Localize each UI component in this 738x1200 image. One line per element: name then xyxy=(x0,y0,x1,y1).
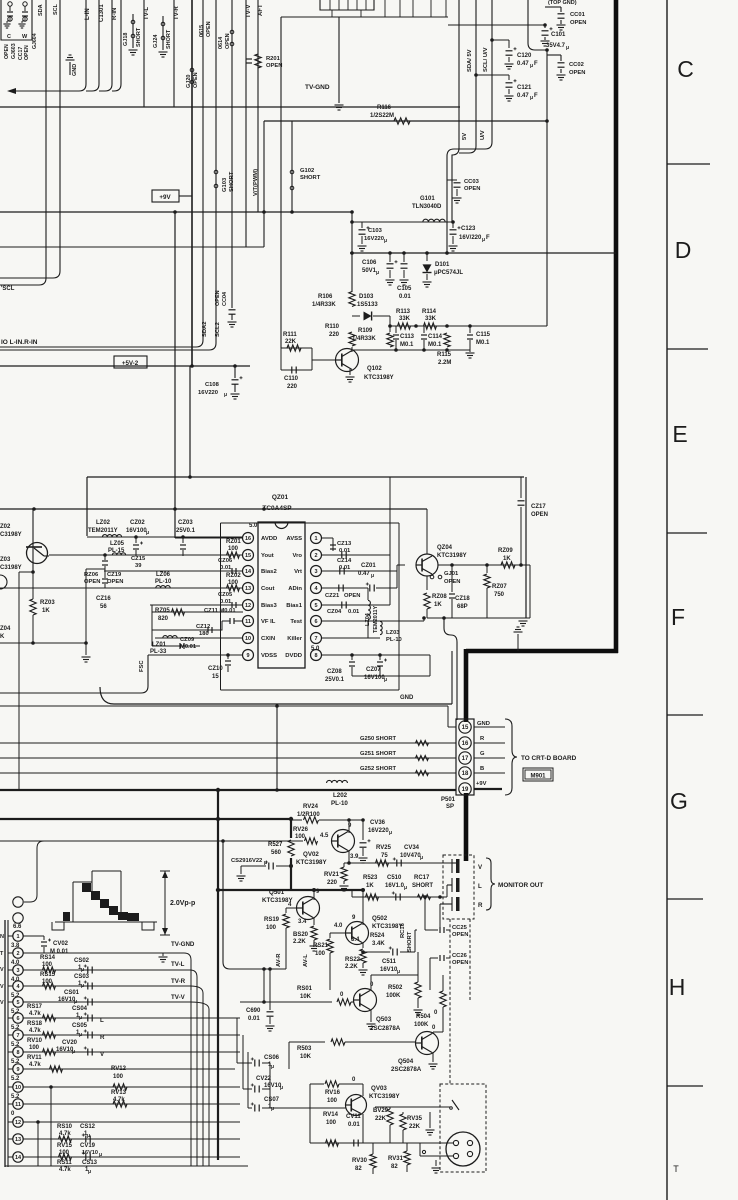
jumper GJ20 OPEN xyxy=(190,68,194,72)
svg-text:16V220: 16V220 xyxy=(198,390,218,396)
capacitor C123 16V/220uF xyxy=(451,220,455,224)
svg-text:μ: μ xyxy=(530,63,533,69)
svg-text:4.7k: 4.7k xyxy=(29,1011,41,1017)
svg-text:M901: M901 xyxy=(530,774,546,780)
svg-text:QZ04: QZ04 xyxy=(437,545,453,551)
wire monitor V y863 xyxy=(349,862,452,864)
bottom connector body xyxy=(4,920,6,1167)
transistor Q503 2SC2878A xyxy=(354,989,377,1012)
svg-text:1K: 1K xyxy=(434,602,442,608)
svg-text:22K: 22K xyxy=(285,339,297,345)
capacitor CV22 16V10u xyxy=(243,1088,252,1090)
svg-text:KTC3198Y: KTC3198Y xyxy=(296,859,327,866)
long wire +5V-2 y366 xyxy=(0,365,250,367)
svg-text:GJ20: GJ20 xyxy=(186,75,192,88)
svg-text:TV-L: TV-L xyxy=(144,7,150,20)
svg-text:RS01: RS01 xyxy=(297,986,313,992)
resistor RV29 22K xyxy=(387,1109,393,1125)
wire y841 left xyxy=(0,840,291,842)
svg-text:16: 16 xyxy=(245,536,251,542)
svg-text:SDA2: SDA2 xyxy=(202,322,208,337)
svg-text:RV25: RV25 xyxy=(376,845,392,851)
svg-text:220: 220 xyxy=(287,384,298,390)
wire monitor R xyxy=(440,903,452,905)
jumper GJ603 capacitor xyxy=(8,2,12,6)
svg-text:0.01: 0.01 xyxy=(339,548,351,554)
resistor R527 560 xyxy=(288,840,294,856)
pin3 wire TV-L xyxy=(23,969,190,971)
svg-text:μ: μ xyxy=(530,95,533,101)
jack L xyxy=(451,878,453,892)
svg-text:220: 220 xyxy=(327,880,338,886)
pin wires right stubs xyxy=(474,726,505,728)
vertical x545 xyxy=(546,253,548,326)
svg-text:18: 18 xyxy=(462,771,469,777)
svg-text:10: 10 xyxy=(15,1085,21,1091)
DIN connector circle xyxy=(446,1132,480,1166)
svg-text:L: L xyxy=(100,1017,104,1024)
staircase left block xyxy=(63,912,70,921)
vertical x264 from y969 xyxy=(263,969,265,1002)
svg-text:TO CRT-D BOARD: TO CRT-D BOARD xyxy=(521,755,577,762)
capacitor C110 220 xyxy=(291,367,293,374)
svg-text:M0.1: M0.1 xyxy=(428,342,442,348)
svg-text:AVDD: AVDD xyxy=(261,536,277,542)
resistor RZ02 100 xyxy=(227,585,240,591)
svg-text:Q501: Q501 xyxy=(269,889,285,896)
svg-text:F: F xyxy=(486,235,490,241)
svg-text:QV02: QV02 xyxy=(303,851,319,858)
svg-text:15: 15 xyxy=(245,553,251,559)
pin4 ADin CZ21 OPEN xyxy=(322,587,368,589)
svg-text:13: 13 xyxy=(15,1137,21,1143)
wire SDA2 vertical xyxy=(0,0,203,347)
connector pin 1 xyxy=(8,935,13,937)
svg-text:2: 2 xyxy=(314,553,317,559)
svg-text:L-IN: L-IN xyxy=(85,8,91,20)
wire AVDD feed y537 xyxy=(175,537,243,539)
svg-text:C103: C103 xyxy=(368,228,383,234)
svg-text:SCL2: SCL2 xyxy=(215,322,221,337)
QV03 collector xyxy=(362,1084,364,1096)
inductor LZ01 PL-33 xyxy=(163,636,177,638)
svg-text:Vrt: Vrt xyxy=(294,569,302,575)
jack V xyxy=(451,859,453,873)
wire CXIN y638 xyxy=(155,637,243,639)
pin1 wire CV02 xyxy=(23,935,44,937)
svg-text:R: R xyxy=(478,902,483,909)
resistor R503 10K xyxy=(289,1041,325,1043)
svg-text:12: 12 xyxy=(245,603,251,609)
svg-text:Q102: Q102 xyxy=(367,366,382,372)
Q504 collector xyxy=(432,1032,434,1034)
svg-text:OPEN: OPEN xyxy=(570,20,586,26)
svg-text:μ: μ xyxy=(397,969,400,975)
Q501 collector xyxy=(313,890,315,900)
resistor RV31 82 xyxy=(404,1151,410,1165)
pin 11 VF IL xyxy=(243,616,254,627)
svg-text:C690: C690 xyxy=(246,1008,261,1014)
svg-text:R523: R523 xyxy=(363,875,378,881)
svg-text:SP: SP xyxy=(446,804,454,810)
svg-text:3: 3 xyxy=(314,569,317,575)
jack R xyxy=(451,897,453,911)
svg-text:CS03: CS03 xyxy=(74,974,90,980)
svg-text:PL-15: PL-15 xyxy=(108,548,125,554)
svg-text:RS14: RS14 xyxy=(40,955,56,961)
svg-text:D101: D101 xyxy=(435,262,450,268)
svg-text:P501: P501 xyxy=(441,797,456,803)
svg-text:G252 SHORT: G252 SHORT xyxy=(360,766,397,772)
wire collector row to switch xyxy=(375,1106,443,1108)
vertical x547 xyxy=(546,50,548,253)
svg-text:CC01: CC01 xyxy=(570,12,586,18)
jumper GJ18 SHORT xyxy=(132,14,134,44)
svg-text:33K: 33K xyxy=(425,316,437,322)
svg-text:M0.1: M0.1 xyxy=(400,342,414,348)
svg-text:QV03: QV03 xyxy=(371,1085,387,1092)
QV02 emitter xyxy=(348,850,350,863)
jumper GJ24 SHORT xyxy=(162,16,164,46)
monitor out dashed box xyxy=(443,855,474,919)
bold wire RV24 y819 xyxy=(0,818,291,820)
connector pin 2 xyxy=(8,952,13,954)
svg-text:13: 13 xyxy=(245,586,251,592)
svg-text:CV02: CV02 xyxy=(53,941,69,947)
svg-text:μ: μ xyxy=(87,1133,90,1139)
svg-text:7: 7 xyxy=(16,1033,19,1039)
Q503 collector to R502 xyxy=(370,975,372,991)
resistor R114 33K xyxy=(424,323,437,329)
wire aux vertical xyxy=(112,0,121,91)
svg-text:9: 9 xyxy=(16,1067,19,1073)
svg-text:RS19: RS19 xyxy=(264,917,280,923)
vertical x38 xyxy=(37,1122,39,1166)
svg-text:RZ01: RZ01 xyxy=(226,539,241,545)
capacitor CZ18 68P xyxy=(451,584,453,592)
wire y969 row xyxy=(285,968,287,970)
resistor RV30 82 xyxy=(370,1154,376,1168)
module pin stubs xyxy=(329,0,331,10)
svg-text:Test: Test xyxy=(290,619,302,625)
ground stub near bus xyxy=(69,62,71,75)
svg-text:CV22: CV22 xyxy=(256,1076,272,1082)
module outer box QZ01 area xyxy=(87,476,524,478)
svg-text:GND: GND xyxy=(72,64,78,76)
svg-text:CS01: CS01 xyxy=(64,990,80,996)
svg-text:RZ05: RZ05 xyxy=(155,608,170,614)
board outline thick horizontal step xyxy=(466,649,618,654)
svg-text:1/2R100: 1/2R100 xyxy=(297,812,320,818)
svg-text:OPEN: OPEN xyxy=(206,21,212,37)
svg-text:OPEN: OPEN xyxy=(531,512,548,518)
svg-text:C108: C108 xyxy=(205,382,220,388)
svg-text:N: N xyxy=(0,934,4,940)
staircase waveform frame xyxy=(73,871,121,922)
svg-text:W: W xyxy=(22,34,28,40)
connector P501 body xyxy=(456,719,474,795)
svg-text:0.01: 0.01 xyxy=(348,609,360,615)
svg-text:0.47: 0.47 xyxy=(517,93,529,99)
svg-text:RV16: RV16 xyxy=(325,1090,341,1096)
connector pin 3 xyxy=(8,969,13,971)
wire VDSS y655 xyxy=(148,654,243,656)
svg-text:M0.01: M0.01 xyxy=(180,644,197,650)
svg-text:5: 5 xyxy=(16,1000,19,1006)
pin2 Vro CZ14 xyxy=(322,554,390,556)
wire y25 top right xyxy=(448,24,545,26)
svg-text:Z04: Z04 xyxy=(0,626,11,632)
wire QZ04 emitter row y565 xyxy=(438,564,530,566)
svg-text:MONITOR OUT: MONITOR OUT xyxy=(498,882,543,889)
svg-text:CS05: CS05 xyxy=(72,1023,88,1029)
pin 6 Test xyxy=(311,616,322,627)
pin 4 ADin xyxy=(311,583,322,594)
svg-text:100: 100 xyxy=(327,1098,338,1104)
ground at pin15 wire xyxy=(457,712,470,714)
svg-text:R110: R110 xyxy=(325,324,340,330)
capacitor CV36 16V220u xyxy=(362,820,364,840)
svg-text:C511: C511 xyxy=(382,959,397,965)
svg-text:SHORT: SHORT xyxy=(407,931,413,952)
svg-text:CZ16: CZ16 xyxy=(96,596,111,602)
svg-text:OPEN: OPEN xyxy=(4,44,10,59)
FSC wire down-left xyxy=(0,655,148,693)
svg-text:100: 100 xyxy=(42,979,53,985)
connector pin 13 xyxy=(8,1138,13,1140)
svg-text:8: 8 xyxy=(16,1050,19,1056)
resistor RV21 220 xyxy=(347,861,351,865)
svg-text:U/V: U/V xyxy=(480,130,486,140)
board outline thick vertical right xyxy=(614,0,619,653)
wire y326 row xyxy=(390,325,547,327)
arrow left on bus xyxy=(7,88,16,94)
svg-text:TV-L: TV-L xyxy=(171,961,185,968)
resistor RV14 100 xyxy=(310,1142,375,1144)
svg-text:OPEN: OPEN xyxy=(84,579,100,585)
wire V/T x264 xyxy=(263,121,265,247)
svg-text:Q504: Q504 xyxy=(398,1058,414,1065)
svg-text:C105: C105 xyxy=(397,286,412,292)
svg-text:K: K xyxy=(0,634,5,640)
bold vertical x291 xyxy=(290,819,292,838)
svg-text:KTC3198Y: KTC3198Y xyxy=(437,553,467,559)
svg-text:100: 100 xyxy=(228,580,239,586)
svg-text:22K: 22K xyxy=(375,1116,387,1122)
capacitor CS06 1u xyxy=(237,1062,252,1064)
resistor RV25 75 xyxy=(376,860,389,866)
svg-text:TEM2011Y: TEM2011Y xyxy=(88,528,118,534)
pin 16 AVDD xyxy=(243,533,254,544)
svg-text:5V: 5V xyxy=(462,133,468,140)
DIN connector dashed box xyxy=(440,1084,486,1172)
svg-text:μ: μ xyxy=(74,999,77,1005)
svg-text:GJ24: GJ24 xyxy=(153,34,159,48)
svg-text:9: 9 xyxy=(246,653,249,659)
resistor R109 1/4R33K xyxy=(387,333,393,347)
svg-text:μ: μ xyxy=(79,1032,82,1038)
capacitor CC26 OPEN xyxy=(430,957,438,959)
svg-text:8: 8 xyxy=(314,653,317,659)
svg-text:SHORT: SHORT xyxy=(229,171,235,192)
wire x86 gnd leg xyxy=(86,568,105,570)
svg-text:R113: R113 xyxy=(396,309,411,315)
capacitor CZ12 180 xyxy=(207,627,209,633)
svg-text:μ: μ xyxy=(404,885,407,891)
svg-text:G101: G101 xyxy=(420,196,435,202)
svg-text:C3198Y: C3198Y xyxy=(0,565,22,571)
svg-text:RZ06: RZ06 xyxy=(84,572,99,578)
resistor RZ03 1K xyxy=(30,599,36,615)
svg-text:Killer: Killer xyxy=(287,636,302,642)
VF IL network box xyxy=(152,605,243,646)
svg-text:6: 6 xyxy=(16,1016,19,1022)
pin 1 AVSS xyxy=(311,533,322,544)
svg-text:16V/220: 16V/220 xyxy=(459,235,482,241)
svg-text:SHORT: SHORT xyxy=(166,29,172,49)
row divider H/I xyxy=(667,1085,703,1087)
DIN pad circles xyxy=(422,1150,425,1153)
pin 3 Vrt xyxy=(311,566,322,577)
svg-text:5.0: 5.0 xyxy=(311,646,320,652)
svg-text:4.7k: 4.7k xyxy=(29,1062,41,1068)
pin7 Killer wire xyxy=(322,637,380,639)
wire Bias2 y571 xyxy=(104,570,243,572)
svg-text:μ: μ xyxy=(271,1106,274,1112)
svg-text:CZ06: CZ06 xyxy=(218,558,233,564)
svg-text:L202: L202 xyxy=(333,792,348,799)
capacitor CZ10 15 xyxy=(226,653,230,657)
svg-text:OPEN: OPEN xyxy=(344,593,360,599)
svg-text:D103: D103 xyxy=(359,294,374,300)
jumper G103 SHORT xyxy=(214,170,218,174)
svg-text:16V100: 16V100 xyxy=(126,528,147,534)
svg-text:CZ15: CZ15 xyxy=(131,556,146,562)
svg-text:F: F xyxy=(534,93,538,99)
svg-text:RS22: RS22 xyxy=(345,957,361,963)
svg-text:RS21: RS21 xyxy=(313,943,329,949)
wire 5V vertical xyxy=(452,0,459,222)
svg-text:R503: R503 xyxy=(297,1046,312,1052)
connector pin 9 xyxy=(8,1068,13,1070)
pin 7 Killer xyxy=(311,633,322,644)
svg-text:100: 100 xyxy=(228,546,239,552)
svg-text:SDA/ 5V: SDA/ 5V xyxy=(467,49,473,72)
svg-text:16V220: 16V220 xyxy=(368,828,389,834)
svg-text:CZ08: CZ08 xyxy=(327,669,342,675)
capacitor CC04 OPEN xyxy=(231,278,233,308)
wire Bias3 y605 xyxy=(150,604,243,606)
unnumbered pins above xyxy=(13,897,23,907)
row divider G/H xyxy=(667,898,703,900)
svg-text:3: 3 xyxy=(16,968,19,974)
long wire y727 partial xyxy=(429,634,431,636)
svg-text:GJ603: GJ603 xyxy=(11,43,17,59)
svg-text:CV34: CV34 xyxy=(404,845,420,851)
svg-text:C106: C106 xyxy=(362,260,377,266)
svg-text:2.2K: 2.2K xyxy=(293,939,306,945)
svg-text:R116: R116 xyxy=(377,105,392,111)
svg-text:6.6: 6.6 xyxy=(13,924,22,930)
svg-text:0.47: 0.47 xyxy=(517,61,529,67)
svg-text:μ: μ xyxy=(264,860,267,866)
capacitor CC25 OPEN xyxy=(425,929,438,931)
vertical wire x175 to IC xyxy=(174,212,176,538)
svg-text:56: 56 xyxy=(100,604,107,610)
svg-text:R-IN: R-IN xyxy=(112,8,118,20)
long wire y706 xyxy=(0,705,448,707)
stub wires from top to bus y17 xyxy=(384,0,386,17)
svg-text:0614: 0614 xyxy=(218,36,224,49)
svg-text:RV30: RV30 xyxy=(352,1158,368,1164)
capacitor CS07 1u xyxy=(248,1107,252,1109)
wire G101 y222 xyxy=(352,221,453,223)
capacitor C101 35V4.7u xyxy=(544,25,546,28)
svg-text:AV-L: AV-L xyxy=(303,954,309,967)
pin4 wire TV-R xyxy=(23,985,190,987)
svg-text:11: 11 xyxy=(245,619,251,625)
svg-text:1K: 1K xyxy=(366,883,374,889)
svg-text:μ: μ xyxy=(224,392,227,398)
svg-text:RV13: RV13 xyxy=(111,1090,127,1096)
wire SDA vertical xyxy=(0,0,46,285)
svg-text:OPEN: OPEN xyxy=(193,72,199,88)
svg-text:4.7k: 4.7k xyxy=(113,1097,125,1103)
wire Cout y588 xyxy=(0,587,243,589)
resistor R523 1K xyxy=(366,894,379,900)
svg-text:RZ08: RZ08 xyxy=(432,594,447,600)
svg-text:CZ03: CZ03 xyxy=(178,520,193,526)
wire U/V vertical xyxy=(447,0,492,253)
QZ04 collector from y509 xyxy=(426,509,428,554)
svg-text:16V10: 16V10 xyxy=(380,967,398,973)
QZ04 base feed xyxy=(397,564,405,566)
svg-text:10K: 10K xyxy=(300,994,312,1000)
ground above thick corner xyxy=(517,634,519,651)
svg-text:D: D xyxy=(675,237,692,263)
svg-text:CZ17: CZ17 xyxy=(531,504,546,510)
brace TO CRT-D BOARD xyxy=(505,719,517,795)
staircase baseline xyxy=(52,922,157,930)
svg-text:R504: R504 xyxy=(416,1014,431,1020)
svg-text:B: B xyxy=(480,766,484,772)
svg-text:OPEN: OPEN xyxy=(24,45,30,60)
svg-text:+5V-2: +5V-2 xyxy=(122,360,139,367)
svg-text:16V10: 16V10 xyxy=(82,1150,98,1156)
pin3 Vrt cap xyxy=(322,570,397,572)
svg-text:R502: R502 xyxy=(388,985,403,991)
svg-text:μ: μ xyxy=(81,967,84,973)
pin8 wire V xyxy=(23,1051,240,1053)
long wire to pin15 xyxy=(448,726,456,728)
svg-text:G250 SHORT: G250 SHORT xyxy=(360,736,397,742)
pin9 wire xyxy=(23,1068,235,1070)
svg-text:RS10: RS10 xyxy=(57,1124,73,1130)
DIN stub wires xyxy=(420,1142,453,1144)
diode D103 1S5133 xyxy=(352,315,360,317)
svg-text:F: F xyxy=(671,604,685,630)
corner wire to aux pin xyxy=(24,841,44,902)
svg-text:C510: C510 xyxy=(387,875,402,881)
pin8 DVDD wire xyxy=(322,654,430,656)
svg-text:QZ01: QZ01 xyxy=(272,494,289,501)
svg-text:CS2916V22: CS2916V22 xyxy=(231,858,262,864)
svg-text:V: V xyxy=(0,984,4,990)
jumper GJ01 OPEN xyxy=(426,576,428,590)
svg-text:TV-R: TV-R xyxy=(174,6,180,20)
capacitor CZ07 16V100u xyxy=(378,653,382,657)
capacitor C120 0.47uF xyxy=(492,39,509,41)
